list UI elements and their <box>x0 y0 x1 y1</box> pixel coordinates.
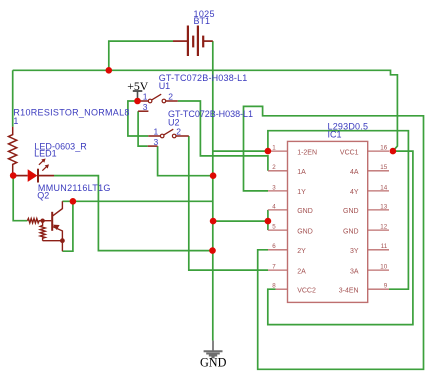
junction node battery plus on rail <box>106 67 113 74</box>
switch U1 pin3 stub <box>138 110 148 112</box>
transistor Q2 base resistor <box>27 219 42 223</box>
battery BT1 plate short 2 <box>202 36 204 48</box>
switch U2 arm <box>164 129 174 135</box>
svg-text:3: 3 <box>154 137 159 147</box>
svg-text:U1: U1 <box>159 81 171 91</box>
svg-text:16: 16 <box>380 145 387 152</box>
svg-text:2: 2 <box>272 164 276 171</box>
transistor Q2 base node dot <box>40 219 44 223</box>
IC1 pin 10 stub <box>368 269 389 271</box>
switch U1 pin2 stub <box>166 100 178 102</box>
junction node IC pin16 <box>390 148 397 155</box>
svg-text:GT-TC072B-H038-L1: GT-TC072B-H038-L1 <box>159 73 248 83</box>
transistor Q2 emitter arrow head <box>53 225 60 230</box>
switch U1 arm <box>152 94 162 100</box>
svg-text:14: 14 <box>380 184 387 191</box>
IC1 pin 8 stub <box>276 288 288 290</box>
transistor Q2 emitter line with arrow <box>53 227 63 241</box>
svg-text:GT-TC072B-H038-L1: GT-TC072B-H038-L1 <box>168 109 253 119</box>
IC1 pin 1 stub <box>268 150 288 152</box>
switch U1 contact circle 1 <box>148 99 152 103</box>
svg-text:GND: GND <box>297 208 313 215</box>
junction node GND at pins45 line <box>210 218 217 225</box>
svg-text:5: 5 <box>272 224 276 231</box>
junction node LED anode <box>10 172 17 179</box>
transistor Q2 base wire <box>43 220 52 222</box>
+5V power symbol <box>133 91 143 101</box>
svg-text:11: 11 <box>381 243 388 250</box>
switch U2 pin1 stub <box>148 135 160 137</box>
battery BT1 right stub <box>204 40 213 42</box>
IC1 pin 2 stub <box>268 170 288 172</box>
svg-text:1Y: 1Y <box>297 189 306 196</box>
junction node GND at switch line <box>210 172 217 179</box>
IC1 pin 4 stub <box>268 209 288 211</box>
IC1 pin 15 stub <box>368 170 389 172</box>
IC1 pin 14 stub <box>368 190 389 192</box>
switch U2 contact circle 1 <box>160 134 164 138</box>
svg-text:13: 13 <box>380 203 387 210</box>
wire IC pin6 2Y outer loop to IC pin3 1Y <box>244 106 424 369</box>
junction node GND at LED return <box>209 247 216 254</box>
wire LED cathode to GND line <box>54 176 213 251</box>
svg-text:8: 8 <box>272 283 276 290</box>
junction node collector rail <box>70 198 77 205</box>
wire LED anode node to Q2 base resistor <box>13 176 27 221</box>
LED LED1 cathode bar <box>37 169 39 183</box>
svg-text:2Y: 2Y <box>297 248 306 255</box>
wire IC pin4 to pin5 tie <box>267 210 269 230</box>
LED LED1 arrow 2 <box>42 167 46 171</box>
battery BT1 plate long 2 <box>197 26 199 57</box>
LED LED1 arrow 1 <box>39 161 43 165</box>
svg-text:R10RESISTOR_NORMAL8: R10RESISTOR_NORMAL8 <box>13 108 129 118</box>
svg-text:1: 1 <box>272 145 276 152</box>
resistor R10 <box>9 127 17 173</box>
svg-text:1: 1 <box>154 127 159 137</box>
svg-text:12: 12 <box>380 224 387 231</box>
svg-text:LED1: LED1 <box>34 149 57 159</box>
svg-text:Q2: Q2 <box>37 191 49 201</box>
battery BT1 left stub <box>173 40 187 42</box>
switch U1 pin1 stub <box>138 100 149 102</box>
svg-text:2A: 2A <box>297 268 306 275</box>
svg-text:1A: 1A <box>297 169 306 176</box>
wire +5V to U2 pin1 <box>128 101 148 136</box>
wire GND line to IC pin1 <box>213 150 268 152</box>
wire battery positive lead <box>109 41 173 70</box>
switch U1 contact circle 2 <box>162 99 166 103</box>
IC1 pin 9 stub <box>368 288 389 290</box>
svg-text:GND: GND <box>200 356 227 370</box>
svg-text:6: 6 <box>272 243 276 250</box>
wire U2 pin2 to IC pin7 2A <box>189 136 268 270</box>
IC1 pin 6 stub <box>268 249 288 251</box>
svg-text:VCC2: VCC2 <box>297 287 316 294</box>
svg-text:VCC1: VCC1 <box>340 149 359 156</box>
op-amp IC1 body <box>288 141 368 302</box>
wire IC pin1 to IC pin9 3-4EN <box>268 131 409 290</box>
wire GND line to IC pins4-5 <box>213 220 268 222</box>
IC1 pin 3 stub <box>268 190 288 192</box>
LED LED1 triangle <box>28 169 38 182</box>
svg-text:4A: 4A <box>350 169 359 176</box>
IC1 pin 16 stub <box>368 150 389 152</box>
wire VCC1 pin16 to VCC2 pin8 <box>268 151 413 325</box>
svg-text:BT1: BT1 <box>194 16 211 26</box>
wire Q2 emitter loop <box>62 201 73 251</box>
IC1 pin 5 stub <box>268 229 288 231</box>
svg-text:7: 7 <box>272 264 276 271</box>
transistor Q2 base bar <box>51 212 53 231</box>
switch U2 pin2 stub <box>176 135 189 137</box>
LED LED1 cathode wire <box>38 175 54 177</box>
wire U1 pin3 to U2 pin3 <box>138 111 148 146</box>
svg-text:1: 1 <box>13 116 18 126</box>
IC1 pin 13 stub <box>368 209 389 211</box>
wire battery negative to GND vertical <box>212 41 214 341</box>
svg-text:GND: GND <box>343 228 359 235</box>
wire U1 pin2 to IC pin2 1A <box>178 101 268 171</box>
battery BT1 plate long 1 <box>187 26 189 57</box>
wire Q2 collector rail <box>62 200 213 202</box>
svg-text:3A: 3A <box>350 268 359 275</box>
svg-text:15: 15 <box>380 164 387 171</box>
wire R10 top <box>12 70 14 127</box>
wire U2 pin3 to GND line <box>158 146 214 176</box>
transistor Q2 emitter junction dot <box>60 238 65 243</box>
ground symbol <box>204 341 223 358</box>
svg-text:3-4EN: 3-4EN <box>339 287 359 294</box>
svg-text:2: 2 <box>176 127 181 137</box>
junction node IC pin1 <box>265 148 272 155</box>
junction node +5V U1 pin1 <box>134 98 141 105</box>
svg-text:4Y: 4Y <box>350 189 359 196</box>
svg-text:GND: GND <box>343 208 359 215</box>
switch U2 contact circle 2 <box>172 134 176 138</box>
svg-text:1: 1 <box>143 92 148 102</box>
svg-text:3: 3 <box>272 184 276 191</box>
IC1 pin 12 stub <box>368 229 389 231</box>
svg-text:9: 9 <box>384 283 388 290</box>
junction node pins45 tie <box>265 218 272 225</box>
svg-text:2: 2 <box>168 92 173 102</box>
transistor Q2 bias resistor <box>40 221 45 241</box>
svg-text:GND: GND <box>297 228 313 235</box>
LED LED1 anode wire <box>13 175 28 177</box>
transistor Q2 bias resistor bottom wire <box>43 241 63 252</box>
svg-text:3Y: 3Y <box>350 248 359 255</box>
svg-text:1-2EN: 1-2EN <box>297 149 317 156</box>
transistor Q2 collector line <box>53 201 63 216</box>
IC1 pin 11 stub <box>368 249 389 251</box>
switch U2 pin3 stub <box>148 145 158 147</box>
svg-text:IC1: IC1 <box>328 129 342 139</box>
svg-text:3: 3 <box>143 102 148 112</box>
svg-text:10: 10 <box>380 264 387 271</box>
svg-text:4: 4 <box>272 203 276 210</box>
IC1 pin 7 stub <box>268 269 288 271</box>
battery BT1 plate short 1 <box>192 36 194 48</box>
wire top rail from R10 to VCC1 pin16 <box>13 70 398 151</box>
svg-text:+5V: +5V <box>127 79 149 93</box>
